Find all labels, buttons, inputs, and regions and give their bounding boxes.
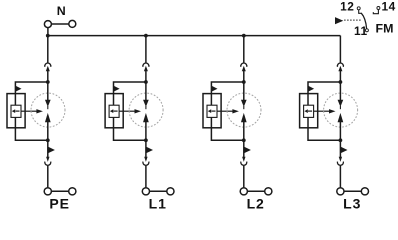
wire: L2 varistor path upper run bbox=[211, 82, 243, 94]
wire: PE spark gap to lower junction bbox=[47, 122, 49, 141]
wire: L3 junction to lower disconnect bbox=[339, 140, 341, 157]
terminal L2: bridge wire bbox=[248, 190, 265, 192]
spark gap bottom electrode (L2) bbox=[241, 113, 247, 122]
wire: L2 spark gap to lower junction bbox=[243, 122, 245, 141]
junction: PE branch at N bus bbox=[46, 34, 50, 38]
wire: L3 spark gap to lower junction bbox=[339, 122, 341, 141]
varistor arrow inside box (L3) bbox=[304, 109, 312, 113]
junction: L2 branch at N bus bbox=[242, 34, 246, 38]
wire: L1 disconnect to varistor tap bbox=[145, 71, 147, 82]
junction: L1 branch at N bus bbox=[144, 34, 148, 38]
thermal disconnect lower (L3): arrow bbox=[339, 157, 342, 162]
terminal L1: left circle bbox=[142, 188, 149, 195]
spark gap top electrode (PE) bbox=[45, 82, 51, 109]
spark gap top electrode (L2) bbox=[241, 82, 247, 109]
wire: L1 lower disconnect to terminal bbox=[145, 166, 147, 188]
junction: L1 varistor path rejoin bbox=[144, 138, 148, 142]
terminal L3: left circle bbox=[337, 188, 344, 195]
wire: PE branch vertical from bus bbox=[47, 36, 49, 63]
wire: N terminal drop to bus bbox=[47, 28, 49, 36]
spark gap bottom electrode (L3) bbox=[338, 113, 344, 122]
wire: L1 varistor path upper run bbox=[114, 82, 146, 94]
terminal L3: bridge wire bbox=[344, 190, 361, 192]
thermal disconnect upper (PE): arrow bbox=[46, 66, 50, 72]
spark gap top electrode (L3) bbox=[338, 82, 344, 109]
FM moving contact (11-12 closed) bbox=[361, 13, 366, 29]
plug-in arrow to spark gap (L3) bbox=[314, 109, 336, 113]
varistor element box (PE) bbox=[11, 105, 21, 117]
varistor element box (L1) bbox=[109, 105, 119, 117]
spark gap module outline: dotted circle (L1) bbox=[129, 93, 163, 127]
wire: PE lower disconnect to terminal bbox=[47, 166, 49, 188]
terminal L2: left circle bbox=[240, 188, 247, 195]
wire: PE varistor path through module bbox=[15, 94, 47, 141]
wire: L1 varistor path through module bbox=[114, 94, 146, 141]
svg-text:L1: L1 bbox=[149, 195, 167, 209]
wire: L3 varistor path through module bbox=[308, 94, 340, 141]
varistor module outer box (L3) bbox=[300, 94, 318, 128]
FM actuator arrow bbox=[335, 17, 343, 24]
junction: L2 varistor path split bbox=[242, 80, 246, 84]
varistor module outer box (L2) bbox=[203, 94, 221, 128]
junction: L1 varistor path split bbox=[144, 80, 148, 84]
varistor module outer box (L1) bbox=[105, 94, 123, 128]
junction: L3 varistor path rejoin bbox=[339, 138, 343, 142]
disconnect flag on PE varistor path bbox=[16, 86, 22, 92]
disconnect flag on L1 varistor path bbox=[114, 86, 120, 92]
thermal disconnect upper (L3): contact arc bbox=[337, 63, 343, 67]
disconnect flag on L2 varistor path bbox=[212, 86, 218, 92]
svg-text:11: 11 bbox=[354, 24, 368, 38]
thermal disconnect upper (L3): arrow bbox=[338, 66, 342, 72]
thermal disconnect upper (L2): contact arc bbox=[241, 63, 247, 67]
svg-text:L2: L2 bbox=[247, 195, 265, 209]
varistor arrow inside box (PE) bbox=[12, 109, 20, 113]
wire: L2 branch vertical from bus bbox=[243, 36, 245, 63]
FM pin 12 lead bbox=[359, 10, 362, 13]
svg-text:N: N bbox=[57, 4, 66, 18]
varistor element box (L2) bbox=[207, 105, 217, 117]
terminal PE: bridge wire bbox=[52, 190, 69, 192]
svg-text:FM: FM bbox=[376, 22, 394, 36]
terminal L1: right circle bbox=[167, 188, 174, 195]
terminal N: left circle bbox=[44, 21, 51, 28]
N bus wire bbox=[48, 35, 341, 37]
spark gap bottom electrode (L1) bbox=[143, 113, 149, 122]
wire: L1 spark gap to lower junction bbox=[145, 122, 147, 141]
FM mechanical linkage (dotted) bbox=[344, 19, 362, 21]
thermal disconnect upper (PE): contact arc bbox=[45, 63, 51, 67]
svg-text:L3: L3 bbox=[343, 195, 361, 209]
wire: L3 lower disconnect to terminal bbox=[339, 166, 341, 188]
varistor element box (L3) bbox=[304, 105, 314, 117]
svg-text:PE: PE bbox=[49, 195, 69, 209]
wire: L2 lower disconnect to terminal bbox=[243, 166, 245, 188]
disconnect flag on L3 main path bbox=[341, 147, 348, 153]
thermal disconnect lower (L3): contact arc bbox=[337, 162, 343, 166]
wire: L3 disconnect to varistor tap bbox=[339, 71, 341, 82]
thermal disconnect upper (L1): arrow bbox=[144, 66, 148, 72]
wire: PE junction to lower disconnect bbox=[47, 140, 49, 157]
thermal disconnect lower (L2): arrow bbox=[242, 157, 245, 162]
thermal disconnect lower (L2): contact arc bbox=[241, 162, 247, 166]
FM pin 14 terminal bbox=[377, 7, 380, 10]
varistor arrow inside box (L2) bbox=[208, 109, 216, 113]
wire: L2 varistor path through module bbox=[211, 94, 243, 141]
FM pin 12 terminal bbox=[357, 7, 360, 10]
varistor module outer box (PE) bbox=[7, 94, 25, 128]
wire: L3 varistor path upper run bbox=[308, 82, 340, 94]
FM pin 11 terminal bbox=[365, 29, 368, 32]
junction: PE varistor path rejoin bbox=[46, 138, 50, 142]
terminal PE: right circle bbox=[69, 188, 76, 195]
wire: PE disconnect to varistor tap bbox=[47, 71, 49, 82]
plug-in arrow to spark gap (PE) bbox=[21, 109, 43, 113]
svg-text:14: 14 bbox=[381, 0, 395, 14]
disconnect flag on L2 main path bbox=[244, 147, 251, 153]
wire: L1 junction to lower disconnect bbox=[145, 140, 147, 157]
disconnect flag on PE main path bbox=[48, 147, 55, 153]
thermal disconnect lower (PE): arrow bbox=[46, 157, 49, 162]
terminal L1: bridge wire bbox=[150, 190, 167, 192]
varistor arrow inside box (L1) bbox=[110, 109, 118, 113]
terminal PE: left circle bbox=[44, 188, 51, 195]
thermal disconnect upper (L2): arrow bbox=[242, 66, 246, 72]
spark gap module outline: dotted circle (L2) bbox=[227, 93, 261, 127]
spark gap bottom electrode (PE) bbox=[45, 113, 51, 122]
thermal disconnect lower (PE): contact arc bbox=[45, 162, 51, 166]
thermal disconnect lower (L1): contact arc bbox=[143, 162, 149, 166]
wire: L3 branch vertical from bus bbox=[339, 36, 341, 63]
plug-in arrow to spark gap (L2) bbox=[217, 109, 239, 113]
terminal N: bridge wire bbox=[52, 23, 69, 25]
spark gap module outline: dotted circle (PE) bbox=[31, 93, 65, 127]
plug-in arrow to spark gap (L1) bbox=[119, 109, 141, 113]
spark gap top electrode (L1) bbox=[143, 82, 149, 109]
thermal disconnect lower (L1): arrow bbox=[144, 157, 147, 162]
spark gap module outline: dotted circle (L3) bbox=[324, 93, 358, 127]
thermal disconnect upper (L1): contact arc bbox=[143, 63, 149, 67]
terminal L3: right circle bbox=[361, 188, 368, 195]
wire: L2 disconnect to varistor tap bbox=[243, 71, 245, 82]
disconnect flag on L1 main path bbox=[146, 147, 153, 153]
terminal N: right circle bbox=[69, 20, 76, 27]
junction: PE varistor path split bbox=[46, 80, 50, 84]
svg-text:12: 12 bbox=[340, 0, 354, 14]
junction: L3 varistor path split bbox=[339, 80, 343, 84]
wire: L2 junction to lower disconnect bbox=[243, 140, 245, 157]
terminal L2: right circle bbox=[265, 188, 272, 195]
disconnect flag on L3 varistor path bbox=[308, 86, 314, 92]
FM pin 14 lead bbox=[373, 10, 378, 14]
wire: PE varistor path upper run bbox=[15, 82, 47, 94]
wire: L1 branch vertical from bus bbox=[145, 36, 147, 63]
junction: L2 varistor path rejoin bbox=[242, 138, 246, 142]
